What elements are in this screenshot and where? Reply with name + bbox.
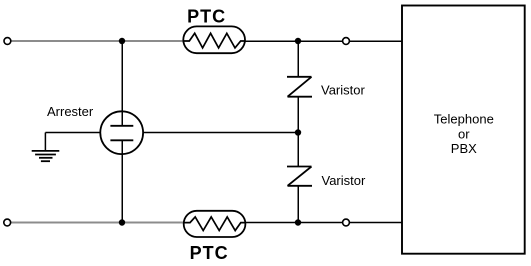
wire: vertical branch through arrester (top segment) — [121, 41, 123, 126]
wire: varistor column top segment — [297, 41, 299, 77]
node: bottom junction at varistor branch — [295, 219, 301, 225]
svg-text:Arrester: Arrester — [47, 104, 94, 119]
node: top junction at varistor branch — [295, 38, 301, 44]
varistor RV2 (bottom) — [287, 167, 312, 186]
node: top junction at arrester branch — [119, 38, 125, 44]
node: varistor midpoint junction — [295, 129, 301, 135]
terminal: bottom-right output — [343, 219, 350, 226]
arrester U1 gas discharge tube — [100, 111, 143, 154]
wire: varistor column middle segment — [297, 97, 299, 167]
wire: bottom ring line from left terminal to PTC — [11, 222, 189, 224]
node: bottom junction at arrester branch — [119, 219, 125, 225]
wire: ground riser — [44, 133, 46, 152]
varistor RV1 (top) — [287, 77, 312, 97]
PTC fuse (top): resistor zigzag — [184, 33, 246, 48]
PTC fuse (bottom): pill body — [184, 211, 246, 237]
ground — [32, 151, 60, 161]
svg-text:PTC: PTC — [190, 243, 229, 263]
label Telephone or PBX — [434, 112, 494, 156]
PTC fuse (bottom): resistor zigzag — [184, 217, 246, 231]
svg-text:Varistor: Varistor — [321, 82, 365, 97]
svg-text:PTC: PTC — [187, 7, 226, 27]
wire: top line PTC to Telephone/PBX box — [241, 40, 403, 42]
box: Telephone or PBX — [402, 6, 525, 254]
wire: bottom line PTC to Telephone/PBX box — [241, 222, 402, 224]
wire: vertical branch through arrester (bottom segment) — [121, 140, 123, 222]
svg-text:Varistor: Varistor — [322, 173, 366, 188]
svg-text:Telephone: Telephone — [434, 112, 494, 127]
PTC fuse (top): pill body — [183, 26, 245, 53]
svg-text:or: or — [458, 126, 470, 141]
wire: varistor column bottom segment — [297, 186, 299, 223]
terminal: top-left input — [4, 38, 11, 45]
svg-text:PBX: PBX — [451, 141, 477, 156]
wire: top tip line from left terminal to PTC — [11, 40, 189, 42]
terminal: top-right output — [343, 38, 350, 45]
terminal: bottom-left input — [4, 219, 11, 226]
wire: horizontal line ground / arrester / varistor midpoint — [45, 132, 298, 134]
